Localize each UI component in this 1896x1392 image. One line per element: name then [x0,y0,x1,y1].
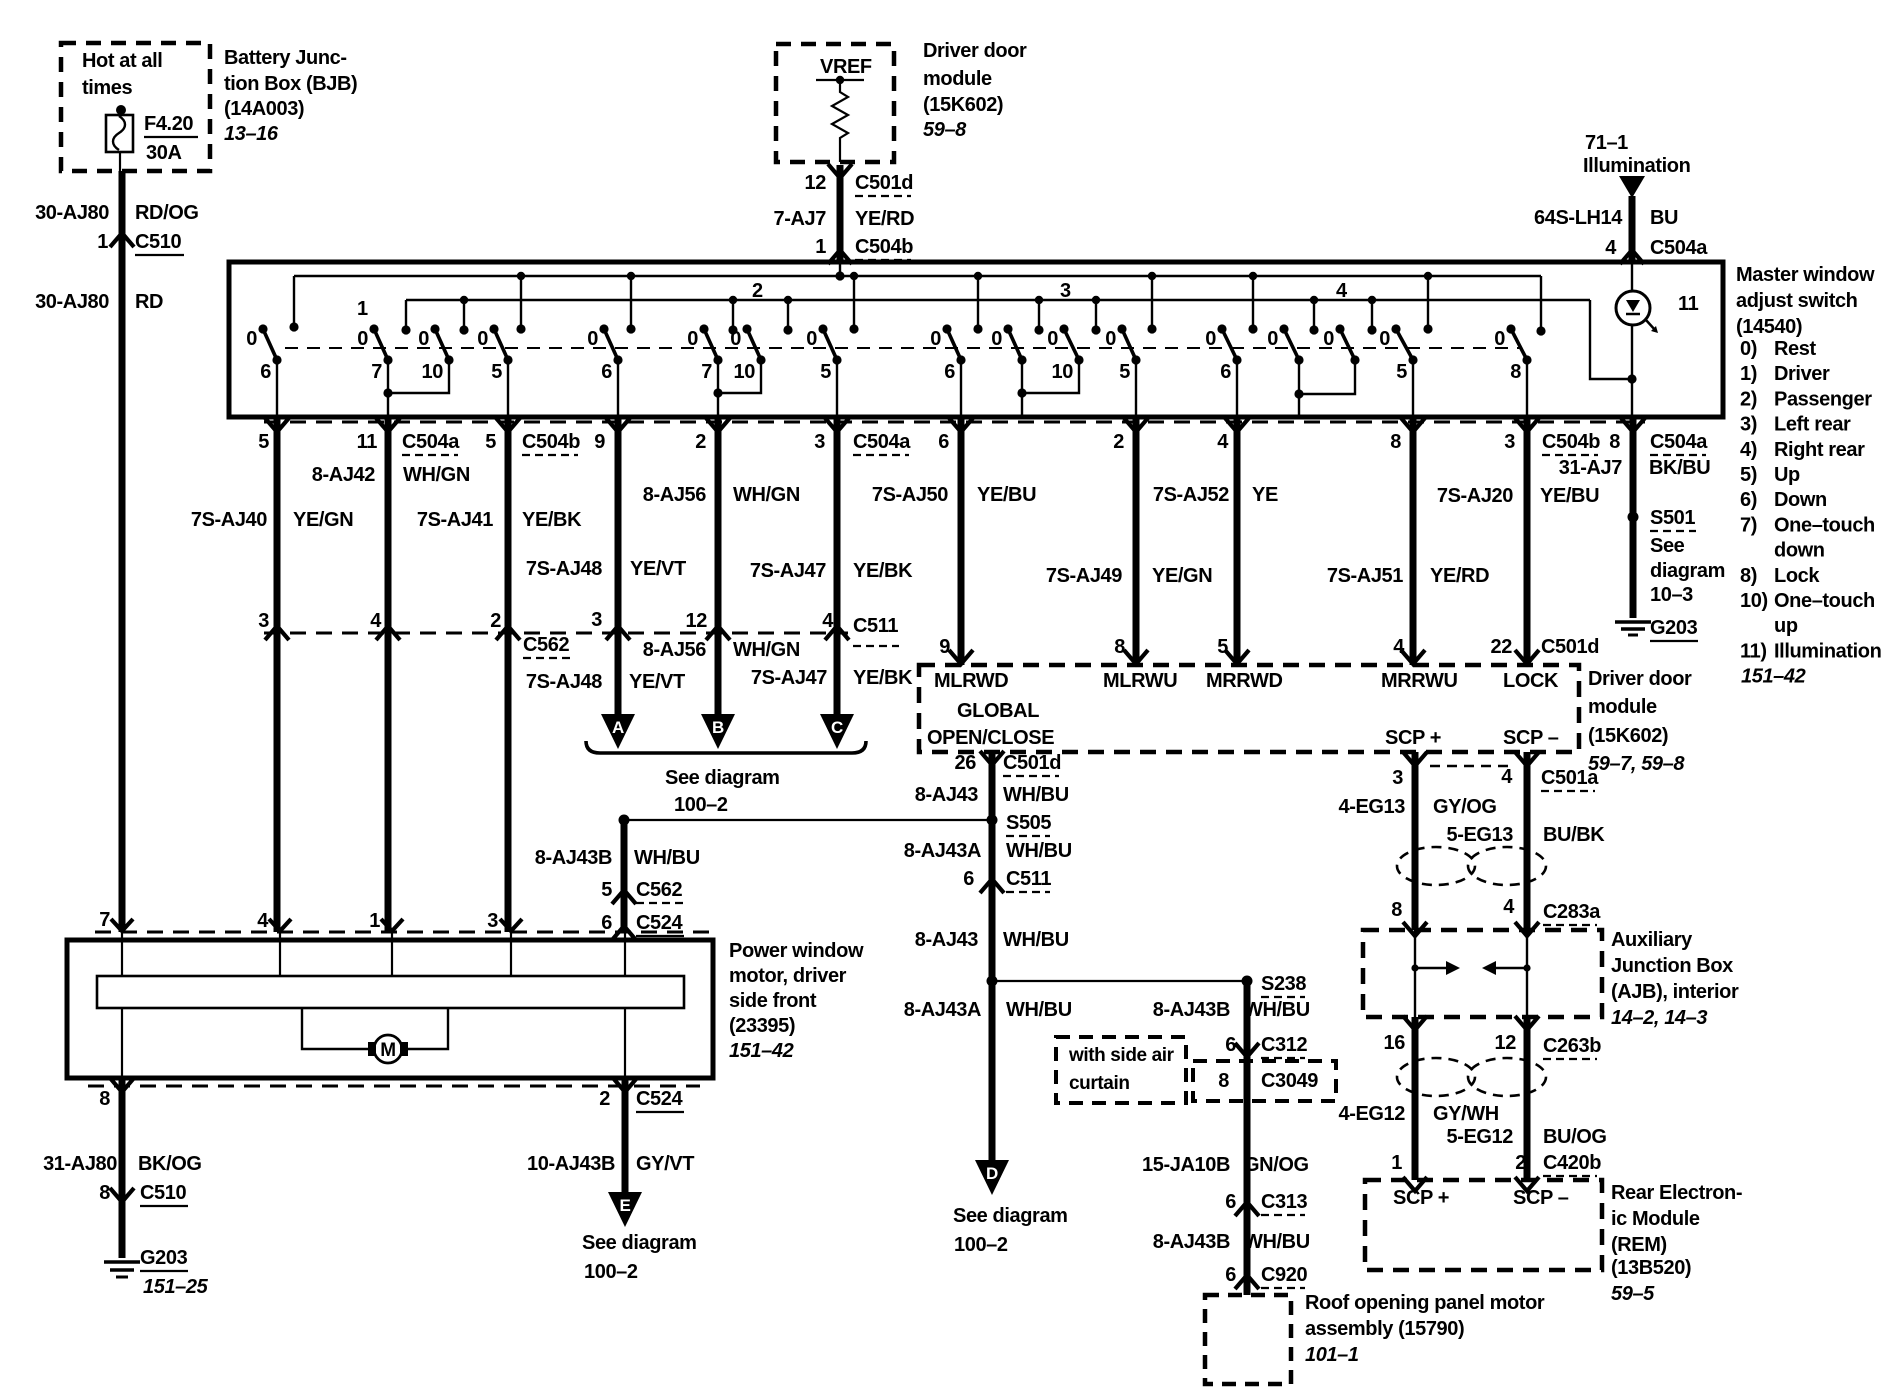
svg-text:C562: C562 [636,879,682,901]
svg-text:4-EG13: 4-EG13 [1338,796,1405,818]
svg-text:Junction Box: Junction Box [1611,955,1733,977]
svg-text:6: 6 [260,361,271,383]
svg-text:module: module [1588,696,1657,718]
svg-text:7S-AJ49: 7S-AJ49 [1046,565,1122,587]
svg-text:0: 0 [587,328,598,350]
svg-text:4: 4 [1605,237,1617,259]
svg-text:C562: C562 [523,634,569,656]
svg-text:See diagram: See diagram [582,1232,697,1254]
svg-text:C: C [831,718,843,737]
svg-text:10: 10 [734,361,756,383]
svg-text:11: 11 [1678,293,1699,315]
svg-text:(15K602): (15K602) [923,94,1003,116]
svg-text:2: 2 [1113,431,1124,453]
svg-text:side front: side front [729,990,817,1012]
svg-text:30-AJ80: 30-AJ80 [35,202,109,224]
svg-text:BU: BU [1650,207,1678,229]
svg-text:(REM): (REM) [1611,1234,1667,1256]
svg-text:5: 5 [1119,361,1130,383]
svg-text:100–2: 100–2 [954,1234,1008,1256]
svg-text:4: 4 [1336,280,1348,302]
svg-text:1: 1 [357,298,368,320]
svg-text:YE/BK: YE/BK [853,667,913,689]
svg-text:Rest: Rest [1774,338,1816,360]
svg-text:9: 9 [939,636,950,658]
svg-text:0: 0 [1323,328,1334,350]
svg-text:G203: G203 [140,1247,188,1269]
svg-text:10: 10 [422,361,444,383]
svg-text:14–2, 14–3: 14–2, 14–3 [1611,1007,1707,1029]
svg-text:WH/BU: WH/BU [1244,1231,1310,1253]
svg-text:8-AJ43: 8-AJ43 [915,929,978,951]
svg-text:5: 5 [601,879,612,901]
svg-text:Lock: Lock [1774,565,1820,587]
svg-text:See diagram: See diagram [665,767,780,789]
svg-text:YE/RD: YE/RD [855,208,914,230]
svg-text:YE/BK: YE/BK [522,509,582,531]
svg-text:8: 8 [1510,361,1521,383]
svg-text:8: 8 [1218,1070,1229,1092]
svg-text:Passenger: Passenger [1774,388,1872,410]
svg-text:YE/BU: YE/BU [977,484,1036,506]
svg-text:C312: C312 [1261,1034,1307,1056]
svg-text:2: 2 [695,431,706,453]
svg-text:7S-AJ48: 7S-AJ48 [526,671,602,693]
svg-text:59–5: 59–5 [1611,1283,1655,1305]
svg-text:with side air: with side air [1068,1045,1175,1066]
svg-text:7: 7 [701,361,712,383]
svg-text:Hot at all: Hot at all [82,50,162,72]
svg-text:(23395): (23395) [729,1015,795,1037]
svg-text:GN/OG: GN/OG [1244,1154,1309,1176]
svg-text:YE/BU: YE/BU [1540,485,1599,507]
svg-text:12: 12 [1495,1032,1517,1054]
svg-text:C283a: C283a [1543,901,1601,923]
svg-text:5-EG13: 5-EG13 [1446,824,1513,846]
svg-text:Battery Junc-: Battery Junc- [224,47,347,69]
svg-text:7): 7) [1740,514,1757,536]
svg-text:GY/OG: GY/OG [1433,796,1497,818]
svg-text:C510: C510 [140,1182,186,1204]
svg-text:5): 5) [1740,464,1757,486]
svg-text:3: 3 [1504,431,1515,453]
svg-text:C501d: C501d [1003,752,1061,774]
svg-text:One–touch: One–touch [1774,514,1875,536]
svg-text:MLRWD: MLRWD [934,670,1008,692]
svg-text:7S-AJ50: 7S-AJ50 [872,484,948,506]
svg-text:5: 5 [485,431,496,453]
svg-text:C510: C510 [135,231,181,253]
svg-text:1: 1 [815,236,826,258]
svg-text:(13B520): (13B520) [1611,1257,1691,1279]
svg-text:Down: Down [1774,489,1827,511]
svg-text:Driver: Driver [1774,363,1830,385]
svg-text:6: 6 [1225,1191,1236,1213]
svg-text:Master window: Master window [1736,264,1875,286]
svg-text:C504b: C504b [1542,431,1600,453]
svg-text:151–25: 151–25 [143,1276,209,1298]
svg-text:0: 0 [1379,328,1390,350]
svg-text:8-AJ43A: 8-AJ43A [904,999,981,1021]
svg-text:7S-AJ41: 7S-AJ41 [417,509,493,531]
svg-text:C3049: C3049 [1261,1070,1318,1092]
svg-text:6: 6 [938,431,949,453]
svg-text:7: 7 [371,361,382,383]
svg-text:6: 6 [1225,1264,1236,1286]
svg-text:8-AJ43: 8-AJ43 [915,784,978,806]
svg-text:100–2: 100–2 [674,794,728,816]
svg-text:4: 4 [1393,636,1405,658]
svg-text:See: See [1650,535,1685,557]
svg-text:2: 2 [752,280,763,302]
svg-text:15-JA10B: 15-JA10B [1142,1154,1230,1176]
svg-text:59–8: 59–8 [923,119,967,141]
svg-text:0: 0 [1047,328,1058,350]
svg-text:WH/GN: WH/GN [733,639,800,661]
svg-text:C504b: C504b [522,431,580,453]
svg-text:YE: YE [1252,484,1278,506]
svg-text:GY/WH: GY/WH [1433,1103,1499,1125]
svg-text:YE/GN: YE/GN [293,509,353,531]
svg-text:BU/BK: BU/BK [1543,824,1605,846]
svg-text:0: 0 [687,328,698,350]
svg-text:ic Module: ic Module [1611,1208,1700,1230]
svg-text:30-AJ80: 30-AJ80 [35,291,109,313]
svg-text:151–42: 151–42 [729,1040,794,1062]
svg-text:5: 5 [1217,636,1228,658]
svg-text:151–42: 151–42 [1741,666,1806,688]
svg-text:31-AJ80: 31-AJ80 [43,1153,117,1175]
svg-text:BU/OG: BU/OG [1543,1126,1607,1148]
svg-text:D: D [986,1164,998,1183]
svg-text:A: A [612,718,624,737]
svg-text:0: 0 [1267,328,1278,350]
svg-text:SCP –: SCP – [1503,727,1559,749]
svg-text:12: 12 [686,610,708,632]
svg-text:0: 0 [991,328,1002,350]
svg-text:(14A003): (14A003) [224,98,304,120]
svg-text:6: 6 [944,361,955,383]
svg-text:WH/BU: WH/BU [1003,784,1069,806]
svg-text:5: 5 [1396,361,1407,383]
svg-text:motor, driver: motor, driver [729,965,847,987]
svg-text:WH/BU: WH/BU [1003,929,1069,951]
svg-text:8): 8) [1740,565,1757,587]
svg-text:3: 3 [1060,280,1071,302]
svg-text:Rear Electron-: Rear Electron- [1611,1182,1742,1204]
svg-text:B: B [712,718,724,737]
svg-text:assembly (15790): assembly (15790) [1305,1318,1464,1340]
svg-text:MLRWU: MLRWU [1103,670,1177,692]
svg-text:5: 5 [258,431,269,453]
svg-text:C501a: C501a [1541,767,1599,789]
svg-text:2: 2 [599,1088,610,1110]
svg-text:8-AJ43B: 8-AJ43B [535,847,612,869]
svg-text:C501d: C501d [1541,636,1599,658]
svg-text:2: 2 [490,610,501,632]
svg-text:down: down [1774,540,1825,562]
svg-text:C504a: C504a [853,431,911,453]
svg-text:7S-AJ47: 7S-AJ47 [751,667,827,689]
svg-text:9: 9 [594,431,605,453]
svg-text:0): 0) [1740,338,1757,360]
svg-text:2): 2) [1740,388,1757,410]
svg-text:3: 3 [258,610,269,632]
svg-text:Up: Up [1774,464,1800,486]
svg-text:6: 6 [1220,361,1231,383]
svg-text:1): 1) [1740,363,1757,385]
svg-text:8: 8 [99,1088,110,1110]
svg-text:Illumination: Illumination [1583,155,1690,177]
svg-text:7: 7 [99,909,110,931]
svg-text:7-AJ7: 7-AJ7 [774,208,827,230]
svg-text:8-AJ43B: 8-AJ43B [1153,1231,1230,1253]
svg-text:26: 26 [955,752,977,774]
svg-text:1: 1 [97,231,108,253]
svg-text:12: 12 [805,172,827,194]
svg-text:C313: C313 [1261,1191,1307,1213]
svg-text:64S-LH14: 64S-LH14 [1534,207,1623,229]
svg-text:GLOBAL: GLOBAL [957,700,1039,722]
svg-text:RD/OG: RD/OG [135,202,199,224]
svg-text:G203: G203 [1650,617,1698,639]
svg-text:0: 0 [357,328,368,350]
svg-text:MRRWD: MRRWD [1206,670,1283,692]
svg-text:C524: C524 [636,1088,683,1110]
svg-text:11): 11) [1740,640,1767,662]
svg-text:3): 3) [1740,414,1757,436]
svg-text:C504a: C504a [1650,237,1708,259]
svg-text:8: 8 [99,1182,110,1204]
svg-text:8: 8 [1391,899,1402,921]
svg-text:SCP +: SCP + [1393,1187,1449,1209]
svg-text:5: 5 [491,361,502,383]
svg-text:7S-AJ20: 7S-AJ20 [1437,485,1513,507]
svg-text:LOCK: LOCK [1503,670,1559,692]
svg-text:WH/BU: WH/BU [634,847,700,869]
svg-text:S505: S505 [1006,812,1051,834]
svg-text:8-AJ42: 8-AJ42 [312,464,375,486]
svg-text:8-AJ43A: 8-AJ43A [904,840,981,862]
svg-text:(14540): (14540) [1736,316,1802,338]
svg-text:RD: RD [135,291,163,313]
svg-text:0: 0 [1205,328,1216,350]
svg-text:0: 0 [1494,328,1505,350]
svg-text:C511: C511 [1006,868,1051,890]
svg-text:C263b: C263b [1543,1035,1601,1057]
svg-text:S501: S501 [1650,507,1695,529]
svg-text:diagram: diagram [1650,560,1725,582]
svg-text:YE/BK: YE/BK [853,560,913,582]
svg-text:(AJB), interior: (AJB), interior [1611,981,1739,1003]
svg-text:Illumination: Illumination [1774,640,1881,662]
svg-text:10-AJ43B: 10-AJ43B [527,1153,615,1175]
svg-text:4: 4 [1501,766,1513,788]
svg-text:Roof opening panel motor: Roof opening panel motor [1305,1292,1545,1314]
svg-text:0: 0 [806,328,817,350]
svg-text:7S-AJ47: 7S-AJ47 [750,560,826,582]
svg-text:6: 6 [601,361,612,383]
svg-text:C420b: C420b [1543,1152,1601,1174]
svg-text:SCP –: SCP – [1513,1187,1569,1209]
svg-text:7S-AJ51: 7S-AJ51 [1327,565,1403,587]
svg-text:MRRWU: MRRWU [1381,670,1458,692]
svg-text:YE/GN: YE/GN [1152,565,1212,587]
svg-text:C504a: C504a [402,431,460,453]
svg-text:0: 0 [418,328,429,350]
svg-text:7S-AJ40: 7S-AJ40 [191,509,267,531]
svg-text:module: module [923,68,992,90]
svg-text:F4.20: F4.20 [144,113,193,135]
svg-text:Power window: Power window [729,940,864,962]
svg-text:tion Box (BJB): tion Box (BJB) [224,73,357,95]
svg-text:59–7, 59–8: 59–7, 59–8 [1588,753,1685,775]
svg-text:up: up [1774,615,1798,637]
svg-text:One–touch: One–touch [1774,590,1875,612]
svg-text:4: 4 [1503,896,1515,918]
svg-text:30A: 30A [146,142,182,164]
svg-text:Driver door: Driver door [1588,668,1692,690]
svg-text:C504b: C504b [855,236,913,258]
svg-text:WH/BU: WH/BU [1006,999,1072,1021]
svg-text:16: 16 [1384,1032,1406,1054]
svg-text:M: M [380,1040,395,1061]
svg-text:0: 0 [930,328,941,350]
svg-text:100–2: 100–2 [584,1261,638,1283]
svg-text:8-AJ56: 8-AJ56 [643,639,706,661]
svg-text:WH/GN: WH/GN [733,484,800,506]
svg-text:7S-AJ48: 7S-AJ48 [526,558,602,580]
svg-text:8: 8 [1609,431,1620,453]
svg-text:0: 0 [1105,328,1116,350]
svg-text:(15K602): (15K602) [1588,725,1668,747]
svg-text:4: 4 [257,910,269,932]
svg-text:C504a: C504a [1650,431,1708,453]
svg-text:3: 3 [591,609,602,631]
svg-text:See diagram: See diagram [953,1205,1068,1227]
svg-text:8: 8 [1114,636,1125,658]
svg-text:8: 8 [1390,431,1401,453]
svg-text:2: 2 [1515,1152,1526,1174]
svg-text:S238: S238 [1261,973,1306,995]
svg-text:GY/VT: GY/VT [636,1153,694,1175]
svg-text:0: 0 [246,328,257,350]
svg-text:10: 10 [1052,361,1074,383]
svg-text:C501d: C501d [855,172,913,194]
svg-text:6): 6) [1740,489,1757,511]
svg-text:WH/GN: WH/GN [403,464,470,486]
svg-text:101–1: 101–1 [1305,1344,1359,1366]
svg-text:OPEN/CLOSE: OPEN/CLOSE [927,727,1054,749]
svg-text:11: 11 [357,431,378,453]
svg-text:curtain: curtain [1069,1073,1130,1094]
svg-text:31-AJ7: 31-AJ7 [1559,457,1622,479]
svg-text:4: 4 [822,610,834,632]
svg-text:8-AJ43B: 8-AJ43B [1153,999,1230,1021]
svg-text:1: 1 [369,910,380,932]
svg-text:Right rear: Right rear [1774,439,1865,461]
svg-text:C920: C920 [1261,1264,1307,1286]
svg-text:4): 4) [1740,439,1757,461]
svg-text:WH/BU: WH/BU [1244,999,1310,1021]
svg-text:1: 1 [1391,1152,1402,1174]
svg-text:WH/BU: WH/BU [1006,840,1072,862]
svg-text:5: 5 [820,361,831,383]
svg-text:22: 22 [1491,636,1513,658]
svg-text:10–3: 10–3 [1650,584,1693,606]
svg-text:C511: C511 [853,615,898,637]
svg-text:Auxiliary: Auxiliary [1611,929,1693,951]
svg-text:7S-AJ52: 7S-AJ52 [1153,484,1229,506]
svg-text:71–1: 71–1 [1585,132,1628,154]
svg-text:5-EG12: 5-EG12 [1446,1126,1513,1148]
svg-text:4: 4 [1217,431,1229,453]
svg-text:3: 3 [814,431,825,453]
svg-text:adjust switch: adjust switch [1736,290,1858,312]
svg-text:10): 10) [1740,590,1768,612]
svg-text:BK/OG: BK/OG [138,1153,202,1175]
svg-text:Left rear: Left rear [1774,414,1851,436]
svg-text:E: E [620,1196,631,1215]
svg-text:0: 0 [730,328,741,350]
svg-text:0: 0 [477,328,488,350]
svg-text:SCP +: SCP + [1385,727,1441,749]
svg-text:4-EG12: 4-EG12 [1338,1103,1405,1125]
svg-text:VREF: VREF [820,56,872,78]
svg-text:4: 4 [370,610,382,632]
svg-text:YE/VT: YE/VT [630,558,686,580]
svg-text:Driver door: Driver door [923,40,1027,62]
svg-text:YE/VT: YE/VT [629,671,685,693]
svg-text:6: 6 [963,868,974,890]
svg-text:3: 3 [1392,767,1403,789]
svg-text:YE/RD: YE/RD [1430,565,1489,587]
svg-text:BK/BU: BK/BU [1649,457,1710,479]
svg-text:3: 3 [487,910,498,932]
svg-text:times: times [82,77,133,99]
svg-text:8-AJ56: 8-AJ56 [643,484,706,506]
svg-text:13–16: 13–16 [224,123,279,145]
